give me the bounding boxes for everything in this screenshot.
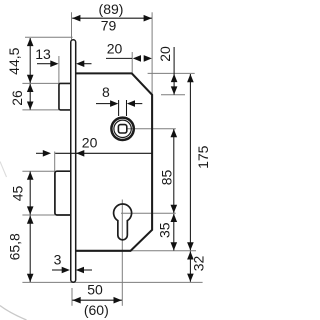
dim 44,5 bbox=[27, 38, 34, 83]
dim 65,8 bbox=[27, 216, 34, 283]
svg-text:65,8: 65,8 bbox=[7, 233, 23, 260]
svg-text:20: 20 bbox=[157, 46, 173, 62]
dim 26 bbox=[27, 84, 34, 110]
follower fill bbox=[110, 116, 135, 141]
dim 8 bbox=[96, 100, 142, 116]
dim 3 bbox=[52, 267, 92, 274]
extension line: case top right bbox=[148, 72, 195, 74]
extension line: latch front face up bbox=[58, 56, 60, 83]
svg-text:3: 3 bbox=[54, 252, 62, 268]
svg-text:20: 20 bbox=[82, 135, 98, 151]
svg-text:32: 32 bbox=[191, 256, 207, 272]
svg-text:79: 79 bbox=[101, 18, 117, 34]
euro cylinder fill bbox=[114, 204, 132, 240]
svg-text:175: 175 bbox=[195, 145, 211, 169]
centerline: cylinder horizontal bbox=[121, 212, 176, 214]
extension line: deadbolt front face up bbox=[54, 152, 56, 172]
watermark arc bottom-left bbox=[0, 162, 27, 320]
svg-text:50: 50 bbox=[87, 282, 103, 298]
extension line: latch bottom bbox=[22, 109, 59, 111]
dim 20 right bbox=[171, 47, 178, 95]
svg-text:13: 13 bbox=[35, 46, 51, 62]
deadbolt bbox=[55, 171, 72, 215]
euro cylinder profile outline bbox=[114, 204, 132, 240]
svg-text:(89): (89) bbox=[99, 1, 124, 17]
extension line: deadbolt bottom bbox=[22, 214, 55, 216]
extension line: chamfer start top bbox=[131, 52, 133, 73]
extension line: faceplate bottom full width bbox=[22, 281, 202, 283]
svg-text:35: 35 bbox=[156, 222, 172, 238]
follower inner circle bbox=[114, 120, 131, 137]
centerline: cylinder vertical bbox=[121, 200, 123, 306]
extension line: 50 dim left bbox=[71, 288, 73, 306]
centerline: follower axis right bbox=[128, 128, 176, 130]
svg-text:20: 20 bbox=[107, 40, 123, 56]
svg-text:26: 26 bbox=[9, 90, 25, 106]
dim 20 left bbox=[36, 150, 152, 157]
latch bolt bbox=[59, 83, 72, 110]
svg-text:(60): (60) bbox=[84, 302, 109, 318]
faceplate bbox=[71, 40, 76, 282]
extension line: deadbolt top bbox=[22, 170, 55, 172]
extension line: 79 dim left bbox=[71, 12, 73, 39]
svg-text:45: 45 bbox=[9, 186, 25, 202]
extension line: 79 dim right / case right edge up bbox=[151, 12, 153, 95]
dim 85 bbox=[171, 129, 178, 213]
lock case outline bbox=[75, 73, 152, 250]
dim 175 bbox=[187, 74, 194, 250]
follower outer ring bbox=[111, 118, 133, 140]
dim 32 bbox=[187, 251, 194, 281]
dim 45 bbox=[27, 172, 34, 215]
dim 13 bbox=[37, 60, 92, 67]
extension line: case bottom right bbox=[131, 250, 196, 252]
extension line: faceplate top (left) bbox=[25, 36, 73, 38]
svg-text:8: 8 bbox=[102, 84, 110, 100]
dim 20 top bbox=[106, 55, 152, 62]
dim (89)/79 line bbox=[72, 15, 152, 22]
extension line: latch top bbox=[22, 82, 59, 84]
extension line: chamfer end right bbox=[161, 94, 185, 96]
follower square spindle hole bbox=[118, 125, 126, 133]
svg-text:85: 85 bbox=[159, 170, 175, 186]
dim 50 bbox=[72, 297, 122, 304]
dim 35 bbox=[171, 214, 178, 251]
svg-text:44,5: 44,5 bbox=[6, 47, 22, 74]
